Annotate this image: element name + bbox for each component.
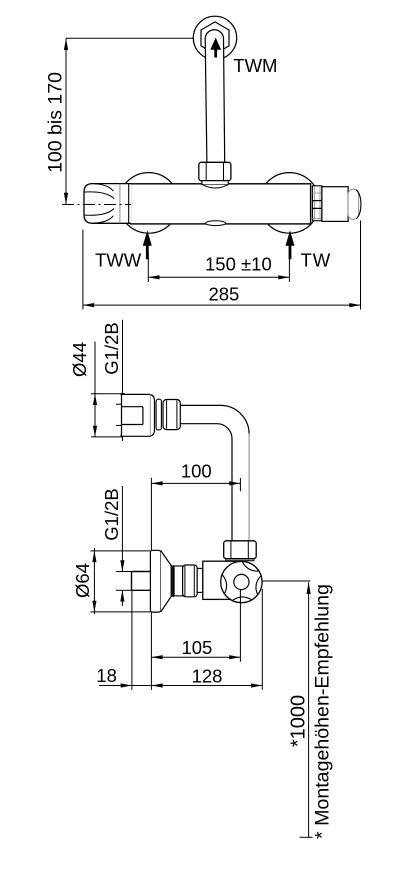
flange divider (grey) — [149, 395, 151, 437]
handle hub circle — [234, 574, 249, 589]
svg-text:G1/2B: G1/2B — [101, 488, 122, 540]
ribbed adjuster ring — [312, 186, 322, 221]
knob collar line (black) — [128, 184, 130, 223]
flow arrow TW — [286, 230, 295, 259]
dimension O64 — [91, 548, 151, 614]
nut facet lines — [206, 163, 223, 181]
mixer body (side) — [203, 561, 235, 599]
svg-text:G1/2B: G1/2B — [101, 322, 122, 374]
collar ring — [156, 399, 161, 430]
washer bottom arc — [203, 185, 227, 188]
wire: extension line stub face (x=131.9) — [131, 591, 133, 690]
svg-text:*1000: *1000 — [287, 695, 309, 747]
mixer body — [130, 184, 310, 224]
connector cylinder — [174, 566, 183, 596]
dimension arrowhead up (100 bis 170) — [64, 38, 68, 50]
flow arrow TWW — [143, 230, 152, 259]
dimension 150 +-10 — [148, 253, 289, 282]
handle lobe bottom — [232, 597, 252, 601]
hex nut of wall union — [201, 22, 229, 54]
volume handle cylinder — [322, 187, 348, 222]
svg-text:Ø44: Ø44 — [69, 342, 90, 377]
wire: extension line from dimension to wall union — [66, 37, 194, 39]
dimension 105 — [151, 656, 240, 658]
svg-text:128: 128 — [192, 665, 223, 686]
dimension 100 bis 170 vertical line — [65, 38, 67, 204]
wall flange of shower arm — [122, 394, 155, 436]
end cap edge arc — [356, 190, 361, 219]
dimension O44 — [91, 342, 122, 437]
svg-text:TWM: TWM — [233, 55, 277, 76]
union nut (mixer inlet) — [183, 565, 198, 597]
shower pipe elbow inner — [180, 424, 232, 541]
pipe union nut on top (side) — [224, 541, 257, 559]
handle lobe left — [222, 575, 227, 594]
svg-text:105: 105 — [181, 637, 212, 658]
washer — [197, 568, 203, 592]
svg-text:100: 100 — [181, 461, 212, 482]
left escutcheon circle — [118, 173, 179, 234]
inlet stub G1/2 — [132, 572, 151, 591]
svg-text:150 ±10: 150 ±10 — [205, 253, 272, 274]
svg-text:TWW: TWW — [95, 249, 142, 270]
handle lobe right — [256, 576, 261, 595]
svg-text:285: 285 — [208, 283, 239, 304]
dimension 285 — [83, 221, 361, 310]
knob grip contour bottom — [84, 209, 114, 216]
dimension G1/2B lower — [116, 486, 132, 606]
knob collar line (grey) — [119, 184, 121, 224]
wire: extension line wall face (x=151.4) upper — [150, 612, 152, 690]
pipe to shower head (capsule) — [205, 30, 225, 163]
handle circle (side) — [221, 561, 262, 602]
dimension *1000 mounting height — [300, 582, 313, 837]
svg-text:18: 18 — [96, 665, 117, 686]
knob face edge bottom — [94, 216, 113, 223]
wall flange plate O64 — [150, 550, 160, 612]
shower pipe outer vertical (grey) — [248, 434, 250, 541]
knob grip contour top — [84, 192, 114, 199]
svg-text:100 bis 170: 100 bis 170 — [45, 72, 67, 173]
dimension 128 and 18 — [99, 685, 262, 687]
washer under top nut — [226, 559, 254, 561]
flange recess — [122, 407, 143, 425]
dimension arrowhead down (100 bis 170) — [64, 193, 68, 205]
handle lobe top-right — [242, 561, 259, 571]
end cap — [348, 189, 359, 219]
temperature knob — [84, 184, 131, 224]
right escutcheon circle — [259, 173, 320, 234]
dimension 100 — [151, 478, 240, 550]
detail ellipse on body — [206, 221, 226, 226]
wire: extension to mounting height dim — [262, 580, 310, 582]
union nut (side) — [163, 400, 180, 430]
nut on top of body — [199, 162, 231, 180]
wall union circle (TWM outlet) — [193, 16, 236, 59]
shower pipe elbow outer — [180, 405, 249, 434]
wire: extension handle axis down — [239, 590, 241, 662]
knob face edge top — [94, 184, 113, 191]
wire: extension handle front down — [261, 589, 263, 690]
dimension G1/2B upper — [116, 320, 131, 441]
svg-text:TW: TW — [301, 249, 332, 270]
centerline (dash-dot) of mixer body — [62, 204, 131, 206]
flow arrow TWM — [210, 38, 221, 58]
svg-text:* Montagehöhen-Empfehlung: * Montagehöhen-Empfehlung — [311, 584, 333, 839]
flange cone — [161, 550, 172, 612]
cone shaded edge — [171, 565, 174, 597]
svg-text:Ø64: Ø64 — [72, 563, 93, 598]
washer under nut — [202, 181, 228, 185]
